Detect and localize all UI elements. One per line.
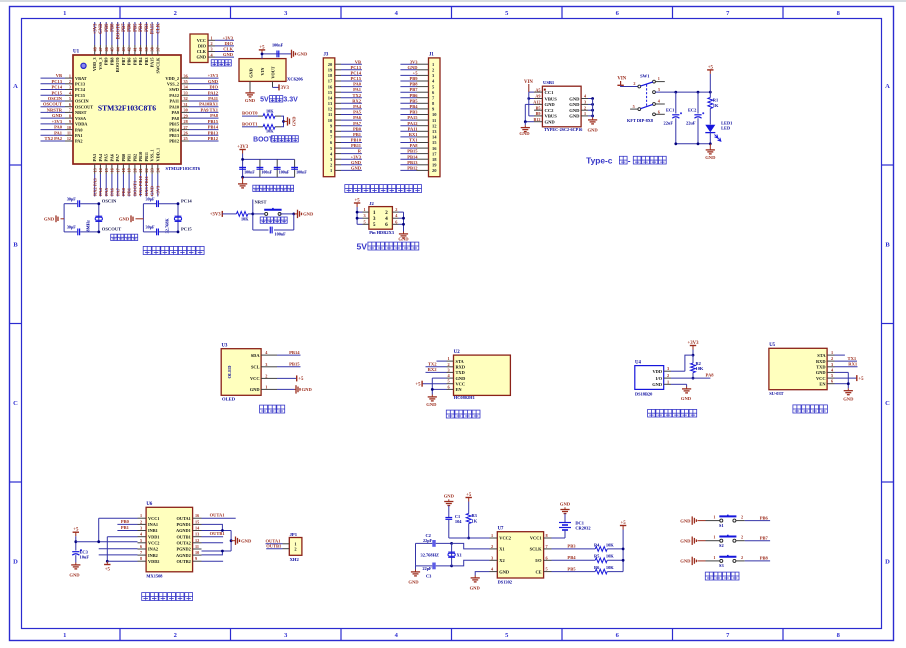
svg-text:PA12: PA12 — [208, 90, 219, 95]
svg-text:R3: R3 — [472, 513, 478, 518]
svg-text:+5: +5 — [708, 65, 714, 70]
svg-text:PA8: PA8 — [210, 113, 219, 118]
svg-text:RX2: RX2 — [428, 367, 438, 372]
svg-text:R1: R1 — [713, 97, 718, 102]
svg-text:32.768K: 32.768K — [165, 218, 170, 234]
svg-text:TX1: TX1 — [848, 356, 857, 361]
svg-text:22pF: 22pF — [423, 566, 433, 571]
svg-text:OUTA1: OUTA1 — [177, 516, 191, 521]
ground filter caps — [242, 177, 244, 181]
svg-text:A5: A5 — [535, 87, 540, 92]
svg-text:PB0: PB0 — [121, 187, 126, 196]
svg-text:VDD2: VDD2 — [148, 559, 159, 564]
svg-text:RX2 PA3: RX2 PA3 — [92, 177, 97, 196]
svg-text:PB14: PB14 — [208, 125, 219, 130]
caption voice recognition — [793, 405, 801, 413]
svg-text:SDA: SDA — [251, 353, 261, 358]
svg-text:10: 10 — [432, 112, 437, 117]
ground of BOOT circuit (rotated label) — [287, 117, 289, 125]
svg-text:11: 11 — [328, 112, 333, 117]
svg-text:PB6: PB6 — [409, 93, 418, 98]
svg-text:R6: R6 — [594, 565, 600, 570]
svg-text:PB3: PB3 — [409, 110, 418, 115]
svg-text:16: 16 — [328, 84, 333, 89]
svg-text:DIO: DIO — [224, 41, 233, 46]
svg-text:NRSTR: NRSTR — [47, 107, 63, 112]
svg-text:PB15: PB15 — [289, 362, 300, 367]
svg-text:U7: U7 — [498, 527, 504, 532]
svg-text:12: 12 — [432, 123, 437, 128]
U1 left pins 1-12 with wires and net labels — [65, 77, 73, 79]
svg-text:HC0802H1: HC0802H1 — [454, 395, 475, 400]
svg-text:BOOT1: BOOT1 — [133, 180, 138, 196]
svg-text:PA2: PA2 — [75, 139, 83, 144]
ground USB1 left — [524, 125, 526, 127]
svg-text:X1: X1 — [457, 553, 462, 558]
svg-text:Type-c: Type-c — [586, 156, 613, 166]
svg-text:PB4: PB4 — [139, 23, 144, 32]
svg-text:100nF: 100nF — [275, 232, 287, 237]
svg-text:PB15: PB15 — [407, 149, 418, 154]
svg-text:10K: 10K — [606, 542, 614, 547]
wire VIN to VBUS pins — [528, 84, 530, 92]
svg-text:VB: VB — [56, 73, 62, 78]
svg-text:1: 1 — [63, 10, 66, 17]
svg-text:100nF: 100nF — [261, 170, 272, 175]
capacitor 100nF at regulator input — [276, 51, 278, 58]
connector USB1 TYPE-C body — [542, 86, 581, 127]
svg-text:GND: GND — [408, 580, 419, 585]
svg-text:PC15: PC15 — [181, 227, 192, 232]
svg-text:2: 2 — [294, 547, 296, 552]
svg-text:33: 33 — [184, 91, 188, 96]
svg-text:D: D — [13, 559, 18, 566]
bottom wire with capacitor 30pF — [143, 231, 156, 233]
svg-text:PB9: PB9 — [105, 23, 110, 32]
wire NRST node to button — [253, 213, 266, 215]
wire VDD1/VDD2 to +5 below — [107, 536, 137, 538]
svg-text:PA7: PA7 — [115, 187, 120, 196]
svg-text:1: 1 — [373, 210, 376, 216]
svg-text:PB1: PB1 — [121, 525, 130, 530]
svg-text:B5: B5 — [536, 105, 541, 110]
svg-text:3: 3 — [140, 526, 142, 531]
ground reset circuit — [294, 213, 298, 215]
svg-text:PA5: PA5 — [104, 154, 109, 162]
svg-text:PB8: PB8 — [111, 23, 116, 32]
svg-text:10uF: 10uF — [80, 555, 90, 560]
svg-text:18: 18 — [432, 157, 437, 162]
svg-text:2: 2 — [741, 515, 743, 520]
svg-text:3: 3 — [491, 555, 493, 560]
svg-text:RX3 PB11: RX3 PB11 — [144, 175, 149, 196]
svg-text:+5: +5 — [466, 493, 472, 498]
svg-text:+3V3: +3V3 — [351, 154, 362, 159]
svg-text:BOOT0: BOOT0 — [116, 23, 121, 40]
svg-text:MX1508: MX1508 — [146, 574, 163, 579]
svg-text:PA12: PA12 — [407, 121, 418, 126]
svg-text:PA0: PA0 — [353, 82, 362, 87]
svg-text:OUTA1: OUTA1 — [210, 513, 226, 518]
svg-text:PB10: PB10 — [351, 138, 362, 143]
crystal X1 32.768K network — [415, 543, 417, 566]
svg-text:5: 5 — [373, 222, 376, 228]
capacitor 100nF reset — [253, 229, 269, 231]
wire +5 rail to U6 VCC1/VCC2 — [76, 541, 138, 543]
svg-text:17: 17 — [115, 168, 120, 172]
node NRST vertical wire and label — [252, 200, 254, 231]
U1 right pins 36-25 with wires and net labels — [181, 77, 189, 79]
header J1 body — [429, 58, 441, 177]
svg-text:PA11: PA11 — [208, 96, 219, 101]
svg-text:RX1: RX1 — [409, 132, 418, 137]
wire to button S3 — [698, 560, 706, 562]
svg-text:30pF: 30pF — [146, 196, 156, 201]
svg-text:GND: GND — [208, 79, 219, 84]
svg-text:LED: LED — [721, 125, 730, 130]
caption independent buttons — [705, 572, 713, 580]
svg-text:PC14: PC14 — [52, 85, 63, 90]
svg-text:PA4: PA4 — [98, 153, 103, 161]
svg-text:PB12: PB12 — [407, 166, 418, 171]
svg-text:PC14: PC14 — [181, 199, 192, 204]
svg-text:GND: GND — [681, 396, 692, 401]
svg-text:+5: +5 — [259, 45, 265, 50]
crystal 32.768K — [177, 204, 179, 232]
svg-text:2: 2 — [174, 632, 177, 639]
svg-text:SCL: SCL — [251, 365, 260, 370]
svg-text:PC14: PC14 — [75, 87, 86, 92]
svg-text:+3V3: +3V3 — [210, 213, 222, 218]
ground right of input cap — [291, 50, 293, 58]
svg-text:40: 40 — [138, 47, 143, 51]
svg-text:13: 13 — [92, 168, 97, 172]
power +5 to U2 VCC — [422, 383, 446, 385]
svg-text:1: 1 — [658, 76, 660, 81]
svg-text:13: 13 — [195, 532, 199, 537]
caption MCU minimal system — [143, 246, 151, 254]
svg-text:10K: 10K — [606, 565, 614, 570]
svg-text:GND: GND — [519, 131, 530, 136]
svg-text:PA6: PA6 — [110, 187, 115, 196]
svg-text:PB14: PB14 — [289, 350, 300, 355]
svg-text:+5: +5 — [298, 377, 304, 382]
svg-text:OSCIN: OSCIN — [102, 199, 117, 204]
power +3V3 for filter caps — [242, 150, 244, 154]
svg-text:2: 2 — [140, 519, 142, 524]
wire joining BOOT resistors to ground — [281, 116, 284, 127]
ground port into rail — [61, 218, 65, 220]
svg-text:VIN: VIN — [260, 67, 265, 76]
U5 pins 1-6 stubs — [827, 354, 834, 356]
svg-text:PB2: PB2 — [132, 154, 137, 162]
svg-text:10: 10 — [328, 118, 333, 123]
driver U6 MX1508 body — [146, 507, 193, 572]
svg-text:TXD: TXD — [456, 370, 465, 375]
ground J2 — [403, 232, 405, 234]
U1 top pins 48-37 with wires and net labels — [94, 45, 96, 55]
svg-text:PB14: PB14 — [407, 154, 418, 159]
svg-text:PB6: PB6 — [127, 57, 132, 65]
ground crystal rail — [415, 566, 417, 570]
wire PGND1/AGND1/PGND2/AGND2 to ground — [202, 524, 223, 530]
svg-text:19: 19 — [328, 68, 333, 73]
svg-text:4: 4 — [385, 216, 388, 222]
svg-text:GND: GND — [52, 113, 63, 118]
svg-text:30pF: 30pF — [67, 196, 77, 201]
svg-text:C3: C3 — [426, 574, 432, 579]
svg-text:26: 26 — [184, 131, 188, 136]
svg-text:2: 2 — [667, 373, 669, 378]
svg-text:VBAT: VBAT — [75, 76, 87, 81]
svg-text:STM32F103C8T6: STM32F103C8T6 — [98, 104, 156, 113]
svg-text:X1: X1 — [499, 547, 504, 552]
voice module U5 SU-03T body — [769, 348, 827, 389]
svg-text:2: 2 — [395, 207, 397, 212]
header J1 pins 1-20 with wires and net labels — [417, 63, 429, 65]
svg-text:SU-03T: SU-03T — [769, 391, 783, 396]
svg-text:INA1: INA1 — [148, 522, 158, 527]
svg-text:GND: GND — [351, 160, 362, 165]
svg-text:XC6206: XC6206 — [287, 77, 304, 82]
svg-text:VDD_1: VDD_1 — [155, 148, 160, 162]
svg-text:PA15: PA15 — [150, 58, 155, 68]
svg-text:5: 5 — [546, 567, 548, 572]
header J2 left pins 1,3,5 and bus wire — [356, 207, 358, 224]
caption xia-zai-kou (download port) — [211, 60, 217, 66]
svg-text:PC13: PC13 — [75, 82, 85, 87]
svg-text:TX3 PB10: TX3 PB10 — [138, 175, 143, 196]
svg-text:10K: 10K — [696, 366, 704, 371]
svg-text:3: 3 — [448, 367, 450, 372]
svg-text:10K: 10K — [266, 109, 274, 114]
svg-text:VCC1: VCC1 — [530, 536, 542, 541]
svg-text:GND: GND — [150, 185, 155, 196]
svg-text:GND: GND — [249, 68, 254, 78]
svg-text:PA9: PA9 — [171, 110, 179, 115]
svg-text:OUTB1: OUTB1 — [176, 534, 190, 539]
svg-text:36: 36 — [184, 73, 188, 78]
svg-text:R4: R4 — [594, 542, 600, 547]
svg-text:PA7: PA7 — [353, 121, 362, 126]
wire VIN node to cap — [261, 54, 263, 59]
ground EC3 — [75, 563, 77, 565]
svg-text:INA2: INA2 — [148, 547, 158, 552]
svg-text:PB13: PB13 — [407, 160, 418, 165]
svg-text:U6: U6 — [146, 502, 152, 507]
svg-text:1: 1 — [713, 555, 715, 560]
svg-text:PC13: PC13 — [351, 65, 362, 70]
svg-text:SWCLK: SWCLK — [155, 57, 160, 74]
svg-text:3: 3 — [265, 362, 267, 367]
svg-text:2: 2 — [265, 373, 267, 378]
svg-text:3V3: 3V3 — [410, 59, 418, 64]
svg-text:PB7: PB7 — [121, 57, 126, 65]
svg-text:J3: J3 — [324, 53, 329, 58]
ground port into rail — [136, 218, 144, 220]
svg-text:PB14: PB14 — [169, 127, 180, 132]
top wire with capacitor 30pF — [64, 203, 77, 205]
svg-text:DIO: DIO — [209, 85, 218, 90]
svg-text:SCLK: SCLK — [530, 547, 543, 552]
net label PB1 wire to INB1 — [117, 530, 137, 532]
ground power circuit — [709, 144, 711, 148]
svg-text:+3V3: +3V3 — [223, 35, 234, 40]
svg-text:OSCOUT: OSCOUT — [43, 102, 62, 107]
svg-text:NRST: NRST — [75, 110, 87, 115]
svg-text:CC2: CC2 — [545, 108, 555, 113]
power +5 J2 — [356, 203, 358, 207]
svg-text:PB12: PB12 — [169, 139, 179, 144]
net label OUTA1 wire to JP1 pin1 — [283, 543, 290, 545]
svg-text:1: 1 — [265, 384, 267, 389]
svg-text:PB15: PB15 — [169, 122, 179, 127]
svg-text:18: 18 — [121, 168, 126, 172]
svg-text:J2: J2 — [369, 201, 374, 206]
svg-text:VCC: VCC — [250, 376, 260, 381]
svg-text:PA15: PA15 — [151, 23, 156, 34]
svg-text:OSCIN: OSCIN — [48, 96, 63, 101]
svg-text:BOOT0: BOOT0 — [242, 110, 258, 115]
svg-text:PC15: PC15 — [52, 90, 63, 95]
svg-text:22pF: 22pF — [423, 538, 433, 543]
svg-text:C: C — [885, 400, 890, 407]
svg-text:PA1: PA1 — [75, 133, 83, 138]
regulator VOUT wire and 3V3 power — [272, 81, 274, 87]
svg-text:+5: +5 — [105, 568, 111, 573]
svg-text:5: 5 — [831, 373, 833, 378]
svg-text:VDD_2: VDD_2 — [165, 76, 179, 81]
svg-text:GND: GND — [499, 569, 509, 574]
svg-text:GND: GND — [408, 65, 419, 70]
svg-text:5V: 5V — [260, 97, 269, 104]
caption DC motor drive — [142, 593, 150, 601]
svg-text:VCC2: VCC2 — [148, 541, 159, 546]
svg-text:GND: GND — [119, 217, 130, 222]
wire U5 STA — [835, 354, 845, 356]
svg-text:100nF: 100nF — [279, 170, 290, 175]
svg-text:STM32F103C8T6: STM32F103C8T6 — [166, 166, 201, 171]
svg-text:U5: U5 — [769, 343, 775, 348]
power +5 and resistor R3 1K — [468, 498, 470, 502]
svg-text:3: 3 — [69, 85, 71, 90]
svg-text:B9: B9 — [536, 111, 541, 116]
svg-text:19: 19 — [432, 163, 437, 168]
svg-text:10: 10 — [67, 125, 71, 130]
svg-text:43: 43 — [121, 47, 126, 51]
svg-text:+5: +5 — [621, 521, 627, 526]
svg-text:PB12: PB12 — [208, 136, 219, 141]
led LED1 — [705, 125, 715, 132]
svg-text:STA: STA — [817, 353, 826, 358]
svg-text:PA11: PA11 — [170, 99, 179, 104]
svg-text:PB8: PB8 — [409, 82, 418, 87]
svg-text:PB4: PB4 — [138, 57, 143, 65]
U3 pins 4-1 with wires — [261, 354, 277, 356]
svg-text:GND: GND — [241, 539, 252, 544]
svg-text:VBUS: VBUS — [545, 114, 558, 119]
capacitor 100nF filter #3 — [276, 159, 278, 177]
wire bottom rail of power circuit — [676, 143, 711, 145]
svg-text:RXD: RXD — [456, 365, 466, 370]
svg-text:CLK: CLK — [197, 49, 207, 54]
svg-text:USB1: USB1 — [543, 80, 555, 85]
svg-text:10K: 10K — [606, 554, 614, 559]
svg-text:46: 46 — [104, 47, 109, 51]
svg-text:2: 2 — [448, 362, 450, 367]
svg-text:Pin HDR2X3: Pin HDR2X3 — [369, 230, 395, 235]
svg-text:1: 1 — [713, 535, 715, 540]
svg-text:32.768HZ: 32.768HZ — [421, 553, 439, 558]
crystal circuit 8MHz: left rail wire — [63, 204, 65, 232]
svg-text:PB3: PB3 — [144, 58, 149, 66]
svg-text:38: 38 — [150, 47, 155, 51]
svg-text:VDD_3: VDD_3 — [92, 58, 97, 72]
svg-text:GND: GND — [569, 114, 580, 119]
svg-text:XH2: XH2 — [290, 557, 300, 562]
svg-text:2: 2 — [385, 210, 388, 216]
header J3 body — [323, 58, 335, 177]
svg-text:VCC: VCC — [197, 38, 206, 43]
svg-text:15: 15 — [195, 519, 199, 524]
crystal 8MHz — [98, 204, 100, 232]
filter caps top rail wire — [242, 154, 244, 178]
svg-text:48: 48 — [92, 47, 97, 51]
svg-text:12: 12 — [328, 107, 333, 112]
svg-text:2: 2 — [211, 41, 213, 46]
svg-text:D: D — [885, 559, 890, 566]
svg-text:TX2: TX2 — [428, 362, 437, 367]
svg-text:6: 6 — [140, 544, 142, 549]
svg-text:BOOT: BOOT — [253, 137, 274, 144]
svg-text:A: A — [885, 83, 890, 90]
svg-text:VDD1: VDD1 — [148, 534, 159, 539]
svg-text:47: 47 — [98, 47, 103, 51]
svg-text:PB13: PB13 — [169, 133, 179, 138]
svg-text:15: 15 — [328, 90, 333, 95]
svg-text:16: 16 — [195, 513, 199, 518]
U1 bottom pins 13-24 with wires and net labels — [94, 164, 96, 174]
svg-text:PA6: PA6 — [109, 153, 114, 161]
svg-text:16: 16 — [432, 146, 437, 151]
svg-text:1: 1 — [831, 350, 833, 355]
capacitor 100nF filter #1 — [239, 166, 246, 168]
capacitor EC2 22uF — [697, 92, 699, 113]
filter caps bottom rail wire — [243, 176, 295, 178]
svg-text:30pF: 30pF — [67, 225, 77, 230]
wire I/O to PA8 — [671, 377, 710, 379]
wire U4 GND to ground — [671, 383, 687, 385]
svg-text:12: 12 — [195, 538, 199, 543]
svg-text:37: 37 — [155, 47, 160, 51]
svg-text:3.3V: 3.3V — [283, 97, 298, 104]
svg-text:45: 45 — [110, 47, 115, 51]
svg-text:GND: GND — [456, 376, 466, 381]
svg-text:TX2: TX2 — [352, 93, 361, 98]
svg-text:B: B — [885, 242, 890, 249]
reset push button S? — [265, 212, 268, 215]
caption temperature acquisition module — [648, 409, 656, 417]
svg-text:CE: CE — [535, 569, 541, 574]
svg-text:100nF: 100nF — [244, 170, 255, 175]
svg-text:U3: U3 — [222, 344, 228, 349]
svg-text:PB5: PB5 — [567, 566, 576, 571]
svg-text:11: 11 — [67, 131, 71, 136]
svg-text:GND: GND — [680, 518, 691, 523]
net label PB7 wire — [736, 540, 745, 542]
bluetooth U2 body — [454, 355, 511, 395]
svg-text:PA11: PA11 — [408, 126, 419, 131]
